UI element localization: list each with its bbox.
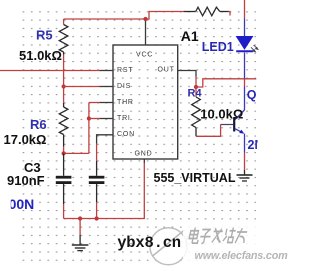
op-amp U1 555 timer box [113,45,178,159]
ground 2 lead [244,170,246,175]
555 RST pin stub [100,70,114,72]
resistor R5 bottom lead [63,52,65,55]
555 THR pin stub [100,102,114,104]
svg-text:R5: R5 [36,28,53,43]
wire bottom ground rail [64,163,145,219]
watermark slash [153,230,185,256]
svg-text:A1: A1 [181,28,199,44]
ground 2 symbol [237,175,253,181]
capacitor C3 plates [56,176,72,184]
resistor R7 [196,7,220,16]
label 2N clipped [248,138,264,152]
svg-text:www.elecfans.com: www.elecfans.com [195,250,289,262]
555 DIS pin stub [100,86,114,88]
svg-text:DIS: DIS [117,83,131,90]
LED LED1 emission arrows [251,45,258,52]
LED LED1 cathode bar [236,50,253,52]
wire LED cathode blue down [244,53,246,79]
capacitor C4 top lead [96,161,98,176]
wire hook after R7 [229,12,231,16]
wire VCC top rail from R5 to 555 VCC [64,12,184,20]
transistor Q emitter diagonal [235,129,243,133]
node THR/cap junction dot [62,151,66,155]
wire THR/TRI vertical riser [88,103,90,154]
svg-text:THR: THR [117,99,134,106]
node VCC junction dot [143,17,147,21]
svg-text:R4: R4 [188,88,203,100]
node TRI junction dot [87,116,91,120]
wire R4 to base of Q [196,125,221,137]
wire TRI to pin [89,118,100,120]
capacitor C4 plates [89,176,105,184]
transistor Q emitter arrowhead [239,130,244,134]
wire emitter blue down [244,134,246,153]
svg-text:RST: RST [117,67,133,74]
wire CON down to C4 (red part) [96,144,98,162]
capacitor C3 top lead from THR node [63,153,65,175]
wire 555 VCC pin stub [145,20,147,46]
resistor R4 top lead wire [195,87,197,97]
node ground rail dot 2 [95,216,99,220]
wire ground tap [79,219,81,236]
svg-text:910nF: 910nF [7,173,45,188]
wire base lead dark [221,124,234,126]
wire THR horizontal from node [64,152,89,154]
svg-text:TRI: TRI [117,115,131,122]
ground 1 lead [79,235,81,245]
555 GND pin stub [143,159,145,163]
wire LED top red [244,0,246,19]
wire DIS node down to R6 [63,87,65,104]
capacitor C4 bottom lead [96,184,98,202]
wire THR horizontal to pin [89,102,100,104]
resistor R5 [59,25,68,53]
wire R6 bottom to THR node [63,147,65,154]
wire LED anode blue [244,19,246,37]
resistor R5 top lead wire [63,19,65,25]
555 CON pin stub and wire [97,135,113,144]
ground 1 symbol [72,245,89,251]
wire DIS line [64,86,100,88]
wire red overlap segment on vertical [244,79,246,87]
wire R5 bottom to DIS node [63,55,65,87]
555 TRI pin stub [100,118,114,120]
svg-text:LED1: LED1 [202,40,234,54]
node ground rail dot 1 [78,216,82,220]
wire emitter red down [244,153,246,171]
grid dots [22,11,256,262]
svg-text:10.0kΩ: 10.0kΩ [200,107,243,122]
svg-text:CON: CON [117,131,135,138]
wire C4 bottom red [96,202,98,219]
svg-text:R6: R6 [30,117,47,132]
wire OUT node step to right rail [196,79,256,87]
capacitor C3 bottom lead [63,184,65,204]
resistor R6 [59,107,68,135]
transistor Q base bar [233,118,235,132]
wire OUT down to node [195,77,197,88]
resistor R6 bottom lead [63,135,65,147]
555 OUT pin stub wire [178,71,196,77]
resistor R6 top lead [63,103,65,107]
svg-text:ybx8.cn: ybx8.cn [117,234,181,252]
svg-text:17.0kΩ: 17.0kΩ [4,132,47,147]
svg-text:51.0kΩ: 51.0kΩ [19,48,62,63]
wire collector blue down [244,87,246,111]
svg-text:Q: Q [247,88,257,102]
svg-text:GND: GND [135,151,153,158]
watermark chinese characters (approximated) [188,228,248,244]
svg-text:VCC: VCC [136,52,153,59]
watermark backdrop [183,226,282,263]
svg-text:555_VIRTUAL: 555_VIRTUAL [154,171,236,185]
resistor R4 bottom lead [195,128,197,137]
resistor R7 right lead [220,11,229,13]
transistor Q collector diagonal [235,110,245,120]
watermark swoosh small [186,233,191,250]
wire C3 bottom red [63,204,65,219]
svg-text:OUT: OUT [158,66,175,73]
watermark circle logo [150,228,187,265]
wire RST line to left edge [0,70,100,72]
resistor R4 [192,97,201,128]
node OUT/R4 junction dot [194,85,198,89]
node DIS junction dot [62,84,66,88]
LED LED1 triangle [236,36,254,50]
resistor R7 left lead [184,11,196,13]
